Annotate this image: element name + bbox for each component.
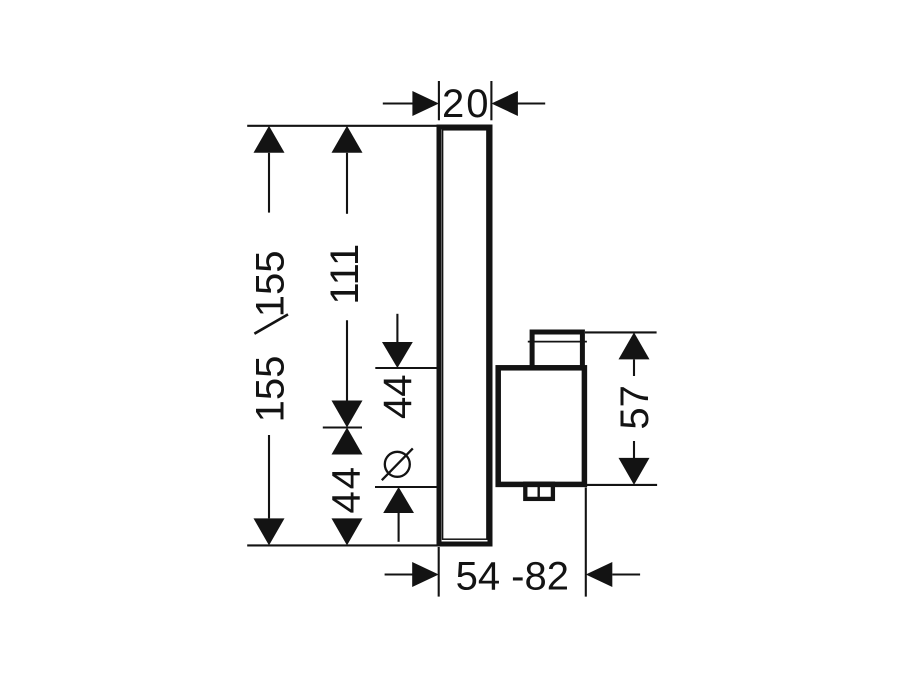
- dimension Ø44: bottom arrow pointing up: [383, 487, 414, 542]
- dimension 155/155: bottom arrow: [254, 435, 285, 545]
- dimension 155/155: top arrow: [254, 126, 285, 213]
- dimension 57: text: [613, 385, 657, 430]
- dimension 54-82: left arrow and tail: [385, 562, 439, 587]
- dimension 20: extension lines: [439, 81, 492, 120]
- dimension 57: bottom extension line: [584, 484, 657, 486]
- dimension 20: left arrow and tail: [383, 91, 439, 116]
- dimension 155/155: slash: [254, 314, 288, 333]
- valve body: [498, 368, 584, 485]
- dimension 20: text: [442, 82, 491, 126]
- dimension Ø44: bottom extension line: [375, 486, 437, 488]
- svg-text:44: 44: [376, 375, 420, 420]
- handle knob: [532, 332, 582, 368]
- dimension 57: top arrow: [619, 332, 650, 376]
- knob cap line: [528, 341, 587, 343]
- dimension 44 (lower): down arrow: [332, 518, 363, 545]
- dimension 57: top extension line: [585, 331, 657, 333]
- top extension line (plate top level): [247, 125, 437, 127]
- svg-text:54 -82: 54 -82: [456, 555, 569, 599]
- dimension 44 (lower): text: [325, 465, 369, 514]
- svg-text:155: 155: [249, 251, 293, 318]
- svg-text:155: 155: [249, 356, 293, 423]
- svg-text:20: 20: [442, 82, 491, 126]
- tick between 111 and 44: [323, 426, 362, 428]
- svg-text:44: 44: [325, 465, 369, 514]
- dimension 44 (lower): up arrow: [332, 428, 363, 455]
- dimension 111: lower arrow pointing down: [332, 320, 363, 427]
- dimension Ø44: top extension line: [375, 367, 437, 369]
- svg-text:111: 111: [323, 244, 367, 305]
- bottom extension line (plate bottom level): [247, 544, 437, 546]
- dimension 155/155: text lower 155: [249, 356, 293, 423]
- dimension 54-82: right arrow and tail: [586, 562, 640, 587]
- dimension 111: text: [323, 244, 367, 305]
- dimension Ø44: diameter symbol: [382, 448, 413, 480]
- dimension 57: bottom arrow: [619, 441, 650, 485]
- dimension Ø44: top arrow pointing down: [382, 314, 413, 368]
- svg-text:57: 57: [613, 385, 657, 430]
- dimension 54-82: right extension line: [585, 488, 587, 597]
- cover plate (side view, 20mm thick): [439, 127, 490, 544]
- dimension 20: right arrow and tail: [491, 91, 545, 116]
- dimension 54-82: text: [456, 555, 569, 599]
- dimension 155/155: text upper 155: [249, 251, 293, 318]
- spout nut below valve: [525, 484, 553, 499]
- dimension 111: top arrow: [332, 126, 363, 214]
- dimension Ø44: text 44: [376, 375, 420, 420]
- dimension 54-82: left extension line: [438, 547, 440, 597]
